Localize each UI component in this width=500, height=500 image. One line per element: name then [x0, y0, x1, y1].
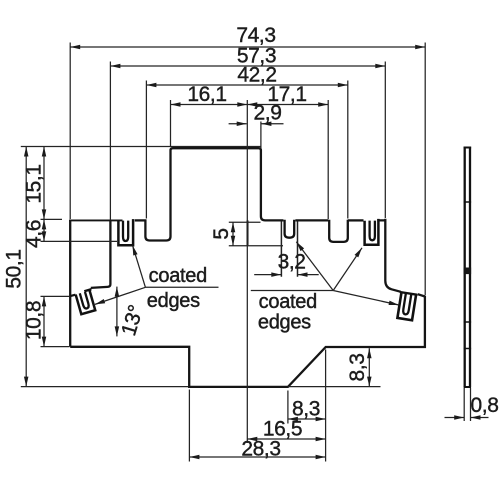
ext 17,1 right [327, 100, 329, 219]
dim line 42,2 [146, 84, 347, 86]
centre slot, tower and right shoulder edge [145, 148, 283, 240]
arrow dim 0,8 left [454, 415, 464, 420]
arrow dim 57,3 left [110, 64, 120, 69]
slot S2 (right big slot) [329, 220, 348, 242]
clip C1 outer box [118, 219, 133, 245]
arrow dim 4,6 bottom [42, 231, 47, 241]
clip C3 (left tilted clip) [75, 289, 97, 314]
side view extension lines for 0,8 [464, 388, 470, 421]
svg-text:2,9: 2,9 [254, 102, 282, 125]
dim line 3,2 [254, 274, 319, 276]
leader to clip C4 [333, 291, 399, 306]
ext 10,8 top [41, 295, 70, 297]
arrow dim 16,1 right [237, 102, 247, 107]
ext bottom right shared [325, 350, 327, 462]
svg-text:edges: edges [258, 311, 311, 333]
dim line 8,3 horizontal [288, 418, 326, 420]
arrow dim 15,1 bottom [42, 209, 47, 219]
ext 42,2 left [145, 81, 147, 219]
arrow dim 16,5 left [247, 437, 257, 442]
connector clip C4 to right edge [418, 294, 425, 296]
arrow leader slot S1 [295, 240, 305, 251]
side view segment ticks [464, 202, 472, 349]
dim line 13 degrees [116, 287, 118, 337]
arrow dim 5 top [231, 222, 236, 232]
leader to clip C3 [95, 287, 145, 304]
arrow dim 74,3 left [70, 45, 80, 50]
arrow dim 10,8 bottom [42, 337, 47, 347]
right edge, bottom edges, tab and diagonal [70, 296, 425, 387]
top edge between clip C1 and centre slot [135, 219, 147, 221]
ext 8,3v bottom [288, 386, 381, 388]
arrow dim 2,9 right [261, 122, 271, 127]
leader to clip C1 [133, 245, 146, 287]
svg-text:3,2: 3,2 [278, 251, 306, 274]
arrow dim 10,8 top [42, 296, 47, 306]
svg-text:50,1: 50,1 [3, 249, 26, 288]
connector clip C3 to left edge [70, 295, 75, 296]
ext 2,9 right [260, 122, 262, 149]
arrow dim 16,5 right [316, 437, 326, 442]
clip C2 inner U slot [370, 221, 375, 241]
arrow dim 57,3 right [375, 64, 385, 69]
leader to clip C2 [333, 248, 362, 291]
ext 50,1 bottom [21, 386, 189, 388]
arrow dim 50,1 bottom [24, 377, 29, 387]
leader lines [95, 242, 399, 305]
left hook wall (inner pocket) [91, 221, 111, 288]
svg-text:10,8: 10,8 [22, 301, 45, 340]
leader underline right label [251, 290, 333, 292]
dim line 57,3 [110, 65, 385, 67]
dim line 5 [232, 222, 234, 245]
clip C4 (right tilted clip) [396, 292, 418, 320]
slot S1 (3,2 slot) U walls [285, 220, 295, 238]
arrow leader clip C3 [94, 299, 105, 306]
arrow leader clip C2 [355, 247, 364, 258]
ext 10,8 bottom [41, 346, 70, 348]
dim line 4,6 [43, 219, 45, 241]
svg-text:15,1: 15,1 [22, 164, 45, 203]
arrow dim 42,2 left [146, 83, 156, 88]
arrow dim 3,2 right [298, 272, 308, 277]
arrow dim 4,6 top [42, 219, 47, 229]
leader to slot S1 [296, 242, 333, 291]
arrow leader clip C1 [130, 245, 137, 256]
arrow dim 8,3 vertical bottom [367, 377, 372, 387]
dim line 74,3 [70, 46, 425, 48]
arrow dim 17,1 right [318, 102, 328, 107]
dim line 2,9 [229, 123, 284, 125]
svg-text:4,6: 4,6 [22, 220, 45, 248]
arrow dim 16,1 left [171, 102, 181, 107]
slot S1 side lines [281, 221, 297, 277]
ext y=219.4 [41, 218, 63, 220]
arrow dim 2,9 left [237, 122, 247, 127]
arrow dim 15,1 top [42, 147, 47, 157]
svg-text:28,3: 28,3 [241, 438, 280, 461]
dim line 28,3 [189, 456, 325, 458]
extension lines [21, 43, 425, 462]
top edge between slot S2 and clip C2 [348, 219, 364, 221]
arrow dim 42,2 right [338, 83, 348, 88]
notch edge at centre line [247, 220, 249, 245]
leader underline left label [145, 286, 218, 288]
svg-text:8,3: 8,3 [346, 354, 369, 382]
ext 74,3 left [69, 43, 71, 220]
body left edge and top-left edge [69, 220, 71, 347]
ext 5 bottom [229, 245, 283, 247]
arrow dim 28,3 left [189, 455, 199, 460]
arrow dim 17,1 left [247, 102, 257, 107]
svg-text:edges: edges [147, 290, 200, 312]
ext top-left horizontal [21, 146, 261, 148]
clip C1 inner U slot [123, 221, 128, 241]
dim line 8,3 vertical [368, 348, 370, 386]
arrow dim 5 bottom [231, 236, 236, 246]
dim line 15,1 [43, 147, 45, 220]
dim line 16,5 [247, 438, 325, 440]
top edge stub and right section wall down to corner [377, 219, 401, 292]
arrowheads [24, 45, 481, 460]
arrow dim 28,3 right [316, 455, 326, 460]
ext 57,3 left [109, 62, 111, 221]
ext 16,1 left [170, 100, 172, 146]
svg-text:13°: 13° [117, 303, 148, 339]
arrow dim 8,3 horizontal left [288, 417, 298, 422]
ext y=241.4 [41, 240, 118, 242]
ext 5 top [229, 221, 261, 223]
svg-text:5: 5 [210, 228, 233, 239]
ext 57,3 right [384, 62, 386, 219]
arrow dim 3,2 left [271, 272, 281, 277]
ext 28,3 left [188, 390, 190, 462]
svg-text:0,8: 0,8 [471, 394, 499, 417]
svg-text:coated: coated [259, 291, 317, 313]
dim line 16,1 / 17,1 [171, 104, 329, 106]
arrow dim 8,3 horizontal right [316, 417, 326, 422]
dim line 0,8 [445, 417, 489, 419]
arrow dim 13 deg bottom [115, 326, 120, 336]
ext 42,2 right [347, 81, 349, 219]
dim line 10,8 [43, 296, 45, 346]
arrow leader clip C4 [389, 301, 400, 308]
ext 8,3h left [287, 391, 289, 424]
arrow dim 50,1 top [24, 147, 29, 157]
side view middle lug [464, 268, 472, 275]
svg-text:coated: coated [149, 265, 207, 287]
side view plate outline [465, 147, 470, 388]
arrow dim 13 deg top [115, 287, 120, 297]
arrow dim 0,8 right [471, 415, 481, 420]
dim line 50,1 [25, 147, 27, 387]
body top-left edge [69, 219, 122, 221]
clip C2 outer box [365, 219, 379, 245]
ext centre long line [246, 100, 248, 443]
svg-text:16,1: 16,1 [187, 83, 226, 106]
arrow dim 74,3 right [415, 45, 425, 50]
ext 74,3 right [424, 43, 426, 296]
dimension lines [26, 47, 488, 457]
arrow dim 8,3 vertical top [367, 348, 372, 358]
top edge between slot S1 and slot S2 [295, 219, 328, 221]
